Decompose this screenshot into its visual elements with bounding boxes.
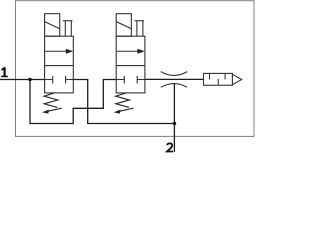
silencer body xyxy=(204,73,233,85)
valve V2 blocked port marks (rest position) xyxy=(116,79,124,81)
silencer baffle ticks xyxy=(209,73,211,79)
valve V1 flow arrow (actuated position) xyxy=(45,50,66,52)
valve V2 solenoid coil xyxy=(116,14,131,37)
node 1 label xyxy=(1,67,8,77)
wire from valve V2 outlet to silencer xyxy=(145,78,204,80)
wire from valve V1 outlet down to port 2 bus xyxy=(73,80,174,124)
restrictor (orifice) arcs xyxy=(161,72,187,76)
valve V2 body xyxy=(116,36,145,93)
wire from node 1 down and around to valve V2 inlet xyxy=(30,80,116,124)
valve V1 manual override xyxy=(63,20,73,22)
valve V1 body xyxy=(45,36,74,93)
valve V1 blocked port marks (rest position) xyxy=(45,79,53,81)
valve V2 spring adjustment arrow xyxy=(117,108,134,112)
valve V1 spring adjustment arrow xyxy=(45,108,62,112)
valve V2 flow arrow (actuated position) xyxy=(117,50,138,52)
valve V2 manual override xyxy=(135,20,145,22)
valve V2 return spring xyxy=(116,93,130,108)
wire port 2 drop line xyxy=(173,84,175,152)
node junction dot on port 2 line xyxy=(173,122,176,125)
node 2 label xyxy=(167,143,173,151)
valve V1 solenoid coil xyxy=(45,14,60,37)
valve V1 return spring xyxy=(44,93,58,108)
silencer exhaust triangle xyxy=(232,74,241,84)
wire port 1 supply line xyxy=(0,79,45,81)
border frame xyxy=(16,1,255,137)
node junction dot on line 1 xyxy=(28,78,31,81)
